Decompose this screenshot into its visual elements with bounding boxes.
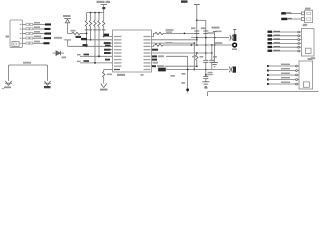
power flag VCC (194, 4, 200, 6)
ferrite FB1 symbol (218, 37, 229, 39)
wire rail to C8 (164, 44, 233, 46)
connector J4 (299, 61, 313, 89)
wire J2 pin1 (281, 12, 301, 14)
shield box inside J1 (12, 42, 19, 47)
test point loop wire (9, 64, 48, 66)
resistor pack row5 (26, 42, 29, 44)
wire J4 pin3 (267, 74, 269, 76)
wire net row4 (33, 37, 49, 39)
label J1 (6, 36, 10, 38)
wire U1 row2 right (152, 39, 197, 41)
resistor R4 pullup (98, 13, 100, 21)
wire to U1 pin1 (104, 36, 113, 38)
resistor R3 pullup (94, 13, 96, 21)
wire J4 pin5 (267, 83, 269, 85)
net label row3 (45, 33, 52, 35)
resistor R9 series row4 right (152, 45, 156, 46)
net VTREF label (97, 1, 105, 3)
wire net row5 (33, 42, 48, 44)
ground rail wire (166, 69, 229, 71)
GND label box (158, 68, 165, 71)
wire U1 row6 right (152, 52, 212, 54)
resistor R5 pullup (103, 13, 105, 21)
wire J1 pin4 (23, 37, 27, 39)
wire J3 pin3 (268, 39, 298, 41)
shield box inside J4 (303, 82, 309, 87)
net label row5 (44, 42, 50, 44)
wire 3V3 to U1 (68, 45, 113, 47)
ground GND2 (202, 81, 209, 83)
capacitor C5 (205, 70, 207, 77)
resistor R1 pullup (86, 13, 88, 21)
wire stub U1 row3 (103, 42, 113, 44)
ground GND1 (214, 32, 216, 63)
wire into U1 row9 (80, 62, 113, 64)
branch wire (197, 19, 206, 21)
IC U1 (113, 30, 152, 72)
J1 pin numbers (20, 24, 22, 25)
test point ring (233, 43, 237, 47)
capacitor C2 (203, 30, 208, 32)
wire U1 row3 right (152, 42, 195, 44)
wire stub U1 row8 (105, 59, 110, 61)
diode D1 (56, 51, 60, 55)
wire U1 row10 right (152, 65, 156, 67)
wire net row2 (33, 28, 49, 30)
wire J1 pin3 (23, 33, 27, 35)
U1 left pin names (114, 36, 122, 70)
wire J4 pin2 (267, 69, 269, 71)
resistor pack row1 (26, 23, 29, 25)
wire J2 pin2 (281, 18, 301, 20)
net label left (54, 37, 62, 39)
label U2 top (181, 0, 188, 2)
U1 right pin names (144, 36, 151, 70)
resistor R6 (68, 32, 73, 34)
resistor R8 series row1 right (152, 33, 156, 36)
ferrite FB2 (229, 67, 230, 73)
test point TP2 arrow (47, 65, 49, 81)
pull-up rail wire (87, 12, 104, 14)
ground arrow (101, 84, 104, 88)
net label row1 (45, 23, 51, 25)
U1 row9 net label (153, 62, 159, 64)
wire J4 pin1 (267, 65, 269, 67)
power flag VTREF2 (63, 15, 71, 17)
wire J3 pin5 (268, 46, 298, 48)
wire stub U1 row5 (104, 49, 113, 51)
wire J3 pin4 (268, 42, 298, 44)
resistor pack row4 (26, 37, 29, 39)
misc small labels near Q area (182, 73, 186, 75)
wire net row1 (33, 24, 49, 26)
wire into U1 row7 (80, 55, 113, 57)
wire J4 pin4 (267, 78, 269, 80)
capacitor C1 (194, 30, 199, 32)
junction dot bottom (186, 88, 189, 91)
power flag VTREF bar (101, 4, 108, 6)
wire stub U1 row6 (104, 52, 113, 54)
capacitor C3 (203, 59, 208, 61)
net label row2 (45, 28, 51, 30)
wire J3 pin1 (268, 31, 298, 33)
resistor R10 (196, 53, 198, 55)
U1 row8 net label (152, 59, 157, 61)
capacitor C4 (211, 45, 213, 60)
resistor R7 bottom (104, 69, 113, 71)
connector J2 (305, 10, 313, 22)
junction dots on rail (90, 12, 92, 14)
wire J1 pin1 (23, 24, 27, 26)
wire J1 pin5 (23, 42, 27, 44)
resistor pack row2 (26, 28, 29, 30)
power tick 3V3b (212, 27, 220, 29)
wire into U1 row2 (82, 39, 113, 41)
net label row4 (44, 37, 51, 39)
wire net row3 (33, 33, 49, 35)
connector J1 (10, 20, 23, 48)
bus wire bottom (208, 91, 319, 93)
shield box inside J3 (305, 48, 311, 53)
wire stub U1 row5 right (152, 49, 159, 51)
power rail 3V3 wire (191, 37, 218, 39)
resistor R2 pullup (90, 13, 92, 21)
wire J3 pin6 (268, 50, 298, 52)
wire J1 pin2 (23, 28, 27, 30)
wire J3 pin2 (268, 35, 298, 37)
test point TP1 arrow (8, 65, 10, 81)
connector J3 (301, 29, 314, 56)
resistor pack row3 (26, 32, 29, 34)
wire U1 row7 right net (152, 55, 157, 57)
